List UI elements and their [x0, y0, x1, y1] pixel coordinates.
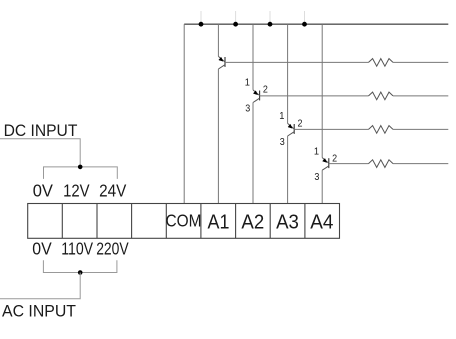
svg-text:1: 1 — [314, 145, 319, 157]
wire: DC INPUT leader underline — [0, 139, 80, 167]
wire: AC selection bracket — [43, 260, 117, 272]
wire: rail down to Q3 emitter — [287, 24, 289, 123]
svg-text:12V: 12V — [63, 181, 90, 201]
node: AC bracket junction dot — [78, 270, 83, 275]
wire: Q1 collector down to terminal A1 — [217, 69, 219, 204]
svg-text:2: 2 — [332, 153, 337, 165]
wire: Q2 collector down to terminal A2 — [252, 103, 254, 204]
svg-text:AC INPUT: AC INPUT — [2, 302, 76, 321]
wire: R4 to right edge — [393, 163, 448, 165]
wire: Q2 base line to resistor R2 — [260, 95, 369, 97]
svg-text:3: 3 — [245, 102, 250, 114]
wire: rail down to COM terminal — [183, 24, 185, 203]
transistor Q4 (PNP, output A4) — [322, 158, 329, 171]
svg-text:2: 2 — [298, 118, 303, 130]
wire: AC INPUT leader line — [0, 273, 80, 299]
svg-text:0V: 0V — [32, 239, 52, 259]
transistor Q2 (PNP, output A2) — [253, 90, 260, 103]
svg-text:DC INPUT: DC INPUT — [4, 121, 78, 140]
svg-text:A2: A2 — [241, 210, 264, 233]
resistor R4 — [369, 160, 394, 168]
node: rail junction dot 4 — [302, 22, 307, 27]
wire: faint stub above junction 2 — [235, 11, 237, 24]
svg-text:A4: A4 — [310, 210, 333, 233]
wire: Q3 base line to resistor R3 — [294, 128, 368, 130]
svg-text:220V: 220V — [96, 239, 129, 259]
wire: rail down to Q1 emitter — [217, 24, 219, 56]
wire: Q4 base line to resistor R4 — [329, 163, 369, 165]
wire: Q4 collector down to terminal A4 — [321, 170, 323, 203]
wire: rail down to Q4 emitter — [321, 24, 323, 157]
node: DC bracket junction dot — [78, 165, 83, 170]
wire: top supply rail — [184, 23, 448, 25]
svg-text:A1: A1 — [208, 210, 230, 233]
wire: DC selection bracket — [44, 167, 118, 179]
wire: faint stub above junction 4 — [304, 11, 306, 24]
svg-text:1: 1 — [279, 110, 284, 122]
resistor R1 — [369, 59, 394, 67]
svg-text:0V: 0V — [33, 181, 54, 201]
node: rail junction dot 3 — [268, 22, 273, 27]
terminal block (9 cells) — [28, 204, 340, 239]
svg-text:3: 3 — [280, 136, 285, 148]
svg-text:24V: 24V — [99, 181, 126, 201]
wire: Q1 base line to resistor R1 — [225, 61, 369, 63]
wire: faint stub above junction 1 — [200, 11, 202, 24]
svg-text:1: 1 — [245, 77, 250, 89]
resistor R2 — [369, 92, 394, 100]
node: rail junction dot 1 — [199, 22, 204, 27]
wire: R2 to right edge — [393, 95, 448, 97]
svg-text:110V: 110V — [61, 239, 93, 259]
wire: rail down to Q2 emitter — [252, 24, 254, 90]
wire: R3 to right edge — [393, 128, 448, 130]
resistor R3 — [369, 126, 394, 134]
wire: R1 to right edge — [393, 61, 448, 63]
wire: Q3 collector down to terminal A3 — [287, 136, 289, 204]
transistor Q1 (PNP, output A1) — [218, 56, 225, 69]
svg-text:2: 2 — [263, 83, 268, 95]
svg-text:3: 3 — [314, 171, 319, 183]
node: rail junction dot 2 — [233, 22, 238, 27]
wire: faint stub above junction 3 — [269, 11, 271, 24]
transistor Q3 (PNP, output A3) — [288, 123, 295, 136]
svg-text:A3: A3 — [276, 210, 299, 233]
svg-text:COM: COM — [166, 211, 202, 231]
